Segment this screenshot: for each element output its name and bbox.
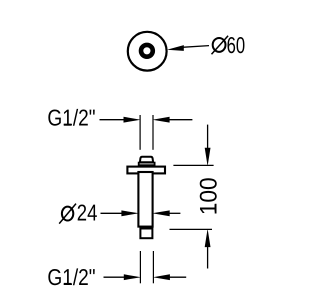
thread tip [140, 229, 152, 239]
D24 left leader line [101, 212, 123, 214]
svg-text:G1/2": G1/2" [47, 105, 95, 131]
label D24 diameter O [62, 207, 73, 221]
100 dim top reference line [173, 164, 213, 166]
100 dim up arrowhead [205, 229, 211, 247]
100 dim lower line [207, 245, 209, 269]
label G1/2 bottom digit-1 foot [64, 283, 71, 285]
label D24 diameter slash [59, 204, 76, 224]
top thread extension line left [139, 115, 141, 150]
label D60 diameter O [213, 38, 226, 52]
bottom G1/2 right tail line [169, 276, 186, 278]
D24 right tail line [169, 212, 180, 214]
top G1/2 right arrowhead [152, 117, 169, 123]
svg-text:60: 60 [227, 32, 246, 58]
svg-text:100: 100 [196, 177, 223, 215]
bottom thread extension line right [152, 251, 154, 283]
bottom thread extension line left [139, 251, 141, 283]
100 dim bottom reference line [170, 228, 213, 230]
bottom G1/2 left arrowhead [124, 274, 141, 280]
nut cap on flange [140, 157, 153, 163]
pipe body [138, 172, 152, 227]
label G1/2 top digit-1 foot [64, 124, 71, 126]
label 100 digit-1 foot [215, 204, 217, 211]
nut collar [139, 163, 155, 166]
leader line to D60 label [182, 46, 209, 48]
bottom G1/2 left leader line [104, 276, 125, 278]
top G1/2 left arrowhead [124, 117, 141, 123]
flange top view outer circle [128, 32, 167, 71]
label D60 diameter slash [212, 36, 229, 55]
D24 right arrowhead [152, 210, 170, 216]
100 dim down arrowhead [205, 148, 211, 166]
D24 left arrowhead [121, 210, 139, 216]
top G1/2 right tail line [169, 119, 192, 121]
top thread extension line right [152, 115, 154, 150]
bottom G1/2 right arrowhead [153, 274, 170, 280]
ceiling flange plate [127, 167, 165, 174]
svg-text:24: 24 [77, 199, 98, 225]
svg-text:G1/2": G1/2" [47, 264, 95, 290]
100 dim upper line [207, 125, 209, 150]
top G1/2 left leader line [100, 119, 125, 121]
leader arrowhead for D60 [167, 45, 184, 51]
flange top view inner ring [141, 45, 153, 57]
